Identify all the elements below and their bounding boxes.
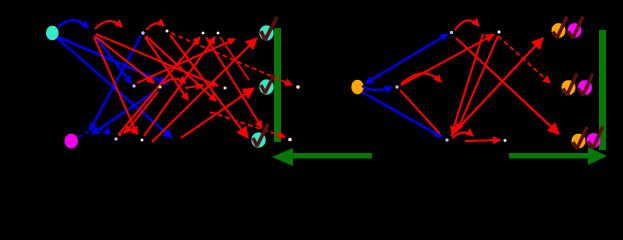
node T5 [166, 30, 169, 33]
wire: red B1 up to T6 [118, 37, 200, 135]
wire: red RB long up to pair row1 thick [451, 38, 543, 136]
check pair row2 orange [562, 74, 578, 96]
wire: red T6 down-right strand [206, 37, 262, 128]
node R1 [395, 85, 398, 88]
node M1 [132, 84, 135, 87]
check pair row2 magenta [578, 74, 593, 96]
wire: red node to RB descending 1 [452, 34, 483, 133]
wire: red T7 down-right strand [220, 37, 249, 80]
wire: red long shallow T1 to M5 [96, 34, 218, 86]
wire: red curve B1 to B2 [119, 130, 138, 136]
green vertical bar left [274, 28, 281, 142]
node M2 [159, 86, 162, 89]
wire: red M1 up-right to (240,35) [137, 39, 235, 83]
node T6 [202, 32, 205, 35]
wire: red curve RT [455, 20, 479, 30]
wire: red node to RB descending 2 [457, 36, 498, 131]
wire: red curve R1 long [401, 73, 441, 84]
check pair row3 orange [572, 127, 588, 149]
wire: red curve T2 [146, 23, 164, 30]
wire: red bottom to C1 thick [152, 38, 257, 142]
node after RT arrow [498, 31, 501, 34]
green horizontal arrow left (points left) [272, 148, 293, 166]
wire: red dashed shallow to dot after bar bottom [210, 112, 285, 137]
wire: dashed blue curve W2 to node B1 [79, 130, 111, 137]
wire: red short arrow M to M4 [185, 85, 203, 88]
wire: blue self-loop arrow from W1 to task T1 [58, 20, 88, 28]
wire: red T2 descending to B3 area [145, 37, 188, 100]
wire: red short arrow RB right [465, 140, 500, 141]
wire: red dashed to pair row2 [498, 36, 550, 83]
wire: red T2 to arrow head right-down [146, 36, 216, 101]
wire: red T1 down to B2 [94, 37, 137, 134]
wire: red dashed T5 through bar to mid-dot [171, 33, 292, 85]
node RB [445, 138, 448, 141]
wire: blue M2 down to worker W2 [92, 90, 157, 134]
wire: red B2 up to T7 [144, 37, 215, 136]
wire: red B3 up to C2 [181, 88, 254, 138]
check circle C1 [259, 17, 277, 41]
check pair row3 magenta [587, 127, 604, 149]
check pair row1 orange [552, 17, 568, 39]
node after RB arrow [504, 139, 507, 142]
node T2 [141, 31, 144, 34]
check circle C2 [259, 75, 274, 95]
wire: red T1 to M2 [95, 36, 154, 83]
wire: red T5 down to C3 [170, 35, 248, 138]
worker W1 (teal) [46, 26, 59, 40]
check pair row1 magenta [568, 17, 584, 39]
wire: red R1 down to RB [400, 90, 440, 134]
wire: red curve RB [452, 132, 473, 138]
wire: red curve T1 [95, 21, 122, 29]
node B1 [114, 137, 117, 140]
green horizontal arrow right (points right) [509, 153, 589, 159]
wire: blue T2 down to worker W2 [90, 36, 141, 130]
node T7 [217, 32, 220, 35]
wire: blue spawn W1 to mid arrow [58, 37, 168, 84]
wire: red RT long down to pair row3 thick [456, 38, 559, 134]
node dot after bar bottom [288, 138, 292, 142]
node M5 [224, 87, 227, 90]
check circle C3 [251, 124, 268, 148]
worker W3 (orange) [351, 80, 363, 94]
wire: blue curve W3 to node R1 [362, 86, 392, 90]
worker W2 (magenta) [64, 134, 78, 149]
wire: blue W3 down to RB [362, 92, 442, 137]
wire: red curve M2 [163, 79, 186, 84]
node B2 [141, 139, 144, 142]
node RT [450, 31, 453, 34]
wire: red M2 down-left to B1 [125, 92, 158, 133]
green vertical bar right [599, 30, 606, 150]
wire: blue spawn W1 to bottom arrow [57, 38, 172, 138]
wire: red R1 up to node (497,33) [401, 35, 494, 86]
wire: blue T1 to node M1 [94, 35, 131, 83]
wire: blue W3 to RT double-headed [366, 34, 448, 83]
node dot after bar mid [296, 85, 300, 89]
